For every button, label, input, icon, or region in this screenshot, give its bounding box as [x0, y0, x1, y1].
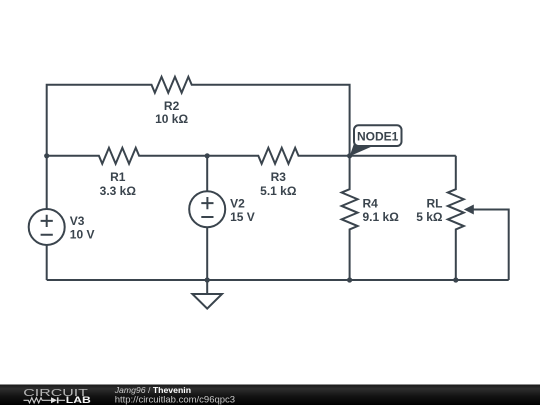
svg-text:NODE1: NODE1 — [357, 129, 399, 143]
svg-text:V3: V3 — [70, 214, 85, 228]
svg-text:R2: R2 — [164, 99, 180, 113]
svg-text:10 V: 10 V — [70, 228, 95, 242]
svg-text:10 kΩ: 10 kΩ — [155, 112, 188, 126]
svg-text:R4: R4 — [363, 197, 379, 211]
svg-text:RL: RL — [427, 197, 443, 211]
svg-text:3.3 kΩ: 3.3 kΩ — [100, 184, 137, 198]
svg-text:9.1 kΩ: 9.1 kΩ — [363, 210, 400, 224]
svg-text:R3: R3 — [271, 170, 287, 184]
svg-text:LAB: LAB — [66, 395, 91, 405]
svg-text:15 V: 15 V — [230, 210, 255, 224]
svg-text:5.1 kΩ: 5.1 kΩ — [260, 184, 297, 198]
svg-text:http://circuitlab.com/c96qpc3: http://circuitlab.com/c96qpc3 — [115, 394, 235, 405]
svg-text:5 kΩ: 5 kΩ — [416, 210, 443, 224]
svg-text:V2: V2 — [230, 196, 245, 210]
svg-text:R1: R1 — [110, 170, 126, 184]
